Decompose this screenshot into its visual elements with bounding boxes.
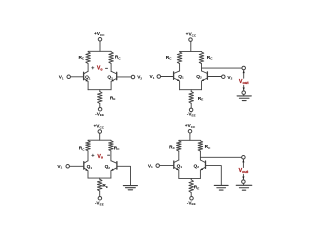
transistor Q2 emitter stroke (C) [112, 168, 117, 171]
wire rail to RE (C) [99, 178, 101, 179]
transistor Q1 collector stroke (A) [84, 71, 89, 74]
svg-text:Q2: Q2 [196, 74, 202, 80]
wire Vout lower segment (B) [243, 85, 245, 90]
resistor RC right (D) [198, 141, 203, 151]
Vout arrow down (B) [243, 88, 245, 91]
wire Q1 collector (C) [87, 151, 89, 161]
svg-text:RC: RC [205, 144, 211, 150]
svg-text:RC: RC [78, 55, 84, 61]
svg-text:RE: RE [194, 185, 200, 191]
wire RE to -VEE terminal (B) [190, 103, 192, 108]
terminal -VEE (D) [190, 197, 194, 201]
wire VCC terminal to top rail (B) [190, 41, 192, 51]
transistor Q2 base bar (C) [116, 162, 118, 169]
transistor Q1 emitter arrow (B) [177, 79, 180, 81]
svg-text:RE: RE [198, 96, 204, 102]
wire emitter rail (D) [179, 177, 201, 179]
wire rail to RE (A) [99, 90, 101, 92]
svg-text:+VCC: +VCC [93, 124, 104, 130]
wire collector node to output terminal (D) [200, 156, 241, 158]
transistor Q1 base bar (C) [83, 162, 85, 169]
transistor Q2 collector stroke (D) [200, 160, 205, 163]
Vout arrow up (B) [243, 70, 245, 73]
transistor Q1 emitter stroke (C) [84, 168, 88, 171]
svg-text:Vo: Vo [97, 154, 103, 160]
svg-text:RC: RC [169, 144, 175, 150]
terminal V1 (A) [67, 75, 71, 79]
resistor RE (A) [98, 92, 103, 104]
transistor Q2 emitter arrow (D) [200, 168, 203, 170]
svg-text:RC: RC [79, 146, 85, 152]
wire VCC terminal to top rail (A) [99, 41, 101, 51]
svg-text:+VCC: +VCC [94, 31, 105, 37]
wire Vout upper segment (D) [242, 159, 244, 167]
resistor RC right (A) [109, 52, 114, 64]
svg-text:+VCC: +VCC [186, 32, 197, 38]
terminal Vout bottom (B) [242, 91, 246, 95]
transistor Q2 base bar (A) [116, 72, 118, 79]
terminal V1 (B) [157, 75, 161, 79]
label - polarity (C) [108, 154, 110, 156]
svg-text:Q2: Q2 [105, 164, 111, 170]
svg-text:V1: V1 [57, 164, 62, 170]
wire RE to -VEE terminal (A) [99, 104, 101, 108]
transistor Q1 base bar (A) [83, 72, 85, 79]
wire Q2 collector (D) [199, 151, 201, 160]
transistor Q1 collector stroke (B) [174, 71, 180, 74]
svg-text:V1: V1 [148, 163, 153, 169]
resistor RE (B) [189, 92, 194, 104]
label - polarity (A) [105, 67, 107, 69]
transistor Q1 base bar (D) [173, 161, 175, 168]
wire top rail (A) [88, 50, 111, 52]
transistor Q1 emitter arrow (D) [176, 168, 179, 170]
terminal +VCC (D) [188, 129, 192, 133]
svg-text:V2: V2 [227, 75, 232, 81]
wire Q1 emitter (C) [87, 171, 89, 178]
wire V1 to Q1 base (B) [161, 76, 174, 78]
transistor Q1 emitter stroke (A) [84, 78, 88, 81]
wire Q2 collector (B) [201, 64, 203, 71]
transistor Q1 collector stroke (D) [174, 160, 179, 163]
terminal -VEE (A) [98, 107, 102, 111]
wire top rail (D) [179, 139, 201, 141]
svg-text:Vout: Vout [239, 168, 249, 174]
wire RE to -VEE terminal (C) [99, 191, 101, 196]
svg-text:Vo: Vo [97, 66, 103, 72]
wire Vout lower segment (D) [242, 174, 244, 179]
wire RE to -VEE terminal (D) [190, 193, 192, 197]
wire V1 to Q1 base (D) [159, 165, 173, 167]
wire Q2 collector (C) [110, 151, 112, 161]
terminal +VCC (B) [189, 38, 193, 42]
svg-text:Q2: Q2 [107, 75, 113, 81]
svg-text:-VEE: -VEE [187, 200, 196, 206]
transistor Q1 emitter arrow (A) [85, 79, 88, 81]
transistor Q2 collector stroke (B) [202, 71, 208, 74]
label + polarity (A) [92, 67, 94, 69]
resistor RE (D) [189, 180, 194, 193]
wire Q1 emitter (D) [178, 170, 180, 178]
wire terminal to ground (D) [243, 184, 245, 186]
transistor Q2 emitter stroke (B) [202, 78, 207, 81]
svg-text:RE: RE [110, 95, 116, 101]
svg-text:RC: RC [114, 145, 120, 151]
svg-text:Q1: Q1 [87, 164, 93, 170]
wire emitter rail (A) [88, 89, 111, 91]
wire emitter rail (B) [180, 89, 202, 91]
svg-text:RE: RE [102, 183, 108, 189]
Vout arrow up (D) [242, 160, 244, 163]
resistor RC left (A) [86, 52, 91, 64]
transistor Q2 emitter stroke (D) [201, 167, 206, 170]
wire rail to RE (D) [190, 178, 192, 179]
wire Q1 collector (A) [87, 64, 89, 72]
transistor Q1 emitter stroke (B) [174, 78, 179, 81]
svg-text:Vout: Vout [239, 79, 249, 85]
terminal +VCC (C) [98, 130, 102, 134]
ground at Vout (B) [237, 96, 251, 101]
wire top rail (B) [180, 50, 202, 52]
ground at Q2 base (D) [214, 185, 228, 190]
ground at Q2 base (C) [123, 186, 137, 190]
transistor Q1 collector stroke (C) [84, 161, 88, 164]
wire Q2 collector (A) [110, 64, 112, 72]
transistor Q2 emitter arrow (B) [202, 79, 205, 81]
svg-text:V2: V2 [137, 75, 142, 81]
svg-text:-VEE: -VEE [95, 201, 104, 207]
svg-text:RC: RC [166, 55, 172, 61]
transistor Q2 emitter stroke (A) [112, 78, 117, 81]
wire VCC terminal to top rail (C) [99, 133, 101, 140]
wire emitter rail (C) [88, 177, 111, 179]
terminal -VEE (C) [98, 196, 102, 200]
resistor RC left (C) [86, 141, 91, 151]
wire Q2 emitter (C) [110, 171, 112, 178]
wire collector node to output terminal (B) [202, 67, 243, 69]
resistor RC left (D) [177, 141, 182, 151]
svg-text:Q1: Q1 [178, 74, 184, 80]
svg-text:Q2: Q2 [193, 163, 199, 169]
terminal Vout top (B) [242, 66, 246, 70]
resistor RC right (C) [109, 141, 114, 151]
svg-text:V1: V1 [150, 74, 155, 80]
svg-text:Q1: Q1 [85, 75, 91, 81]
wire top rail (C) [88, 139, 111, 141]
svg-text:RC: RC [207, 55, 213, 61]
svg-text:+VCC: +VCC [185, 123, 196, 129]
svg-text:V1: V1 [59, 75, 64, 81]
resistor RC left (B) [177, 52, 182, 64]
terminal V1 (D) [156, 164, 160, 168]
wire rail to RE (B) [190, 90, 192, 92]
Vout arrow down (D) [242, 177, 244, 180]
transistor Q1 emitter stroke (D) [174, 167, 178, 170]
svg-text:-VEE: -VEE [95, 111, 104, 117]
wire Q1 emitter (A) [87, 81, 89, 89]
wire V1 to Q1 base (A) [70, 76, 83, 78]
wire Q2 base to ground (D) [206, 166, 222, 186]
transistor Q2 collector stroke (A) [111, 71, 117, 74]
label + polarity (C) [92, 154, 94, 156]
transistor Q2 base bar (B) [206, 72, 208, 79]
wire Q2 base to ground (C) [117, 166, 131, 185]
resistor RC right (B) [199, 52, 204, 64]
wire Q2 emitter (D) [199, 170, 201, 178]
wire Q2 base to V2 (B) [207, 76, 221, 78]
wire Q2 base to V2 (A) [117, 76, 132, 78]
terminal -VEE (B) [189, 108, 193, 112]
terminal V1 (C) [66, 165, 70, 169]
transistor Q2 base bar (D) [205, 161, 207, 168]
transistor Q2 collector stroke (C) [111, 161, 117, 164]
transistor Q2 emitter arrow (C) [111, 169, 114, 171]
transistor Q1 emitter arrow (C) [85, 169, 88, 171]
terminal V2 (A) [131, 75, 135, 79]
wire Q2 emitter (A) [110, 81, 112, 89]
wire Q2 emitter (B) [201, 81, 203, 90]
svg-text:Q1: Q1 [177, 163, 183, 169]
wire Vout upper segment (B) [243, 70, 245, 78]
wire VCC terminal to top rail (D) [189, 133, 191, 140]
resistor RE (C) [97, 179, 102, 191]
svg-text:-VEE: -VEE [187, 112, 196, 118]
wire V1 to Q1 base (C) [69, 165, 83, 167]
transistor Q2 emitter arrow (A) [111, 79, 114, 81]
wire Q1 collector (B) [179, 64, 181, 71]
transistor Q1 base bar (B) [173, 72, 175, 79]
wire Q1 collector (D) [178, 151, 180, 160]
terminal +VCC (A) [98, 38, 102, 42]
wire Q1 emitter (B) [179, 81, 181, 90]
terminal Vout top (D) [242, 156, 246, 160]
terminal Vout bottom (D) [242, 180, 246, 184]
wire terminal to ground (B) [243, 94, 245, 95]
svg-text:RC: RC [115, 55, 121, 61]
terminal V2 (B) [222, 75, 226, 79]
ground at Vout (D) [236, 185, 252, 190]
